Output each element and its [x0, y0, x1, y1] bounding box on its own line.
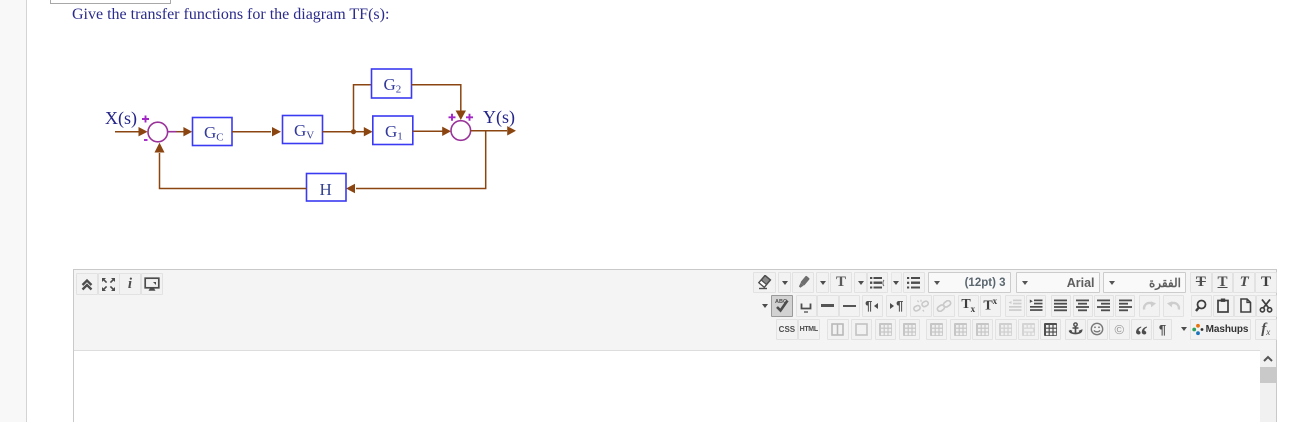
summing junction S1: [148, 122, 168, 142]
wire input to S1: [115, 131, 139, 133]
wire Gc to Gv: [232, 131, 271, 133]
wire G2 to S2 down: [412, 85, 461, 111]
wire G1 to S2: [413, 130, 443, 132]
wire S1 to Gc (purple stub): [168, 131, 177, 133]
partial input box at very top: [50, 0, 171, 4]
wire feedback down from output: [356, 131, 486, 189]
wire branch up to G2: [354, 85, 372, 132]
content scrollbar: [1260, 350, 1276, 422]
block Gc: [193, 118, 233, 146]
size combo: [928, 272, 1011, 293]
paragraph combo: [1103, 272, 1186, 293]
TOOLBAR row 2: [759, 295, 771, 316]
arrowhead into S2: [442, 127, 451, 136]
arrowhead into H right side: [346, 184, 355, 193]
svg-text:X(s): X(s): [105, 108, 137, 129]
minus sign at summing junction S1: [144, 139, 148, 141]
summing junction S2: [451, 121, 471, 141]
block G2: [372, 69, 412, 98]
wire S2 output: [471, 130, 507, 132]
plus sign right of S2: [466, 114, 473, 121]
TOOLBAR row 1 right: [753, 272, 776, 293]
block diagram: [100, 60, 530, 210]
question text: [72, 6, 389, 24]
TOOLBAR row 3: [776, 319, 798, 340]
svg-text:Y(s): Y(s): [483, 107, 515, 128]
editor container: [73, 269, 1277, 422]
arrowhead into Gc: [183, 127, 192, 136]
arrowhead down into S2: [456, 111, 466, 121]
arrowhead into Gv: [272, 127, 281, 136]
wire Gv to branch node: [323, 131, 354, 133]
wire to Gc: [177, 131, 185, 133]
block H: [307, 174, 347, 202]
block G1: [373, 116, 413, 145]
branch node junction dot: [351, 129, 356, 134]
block Gv: [283, 116, 323, 144]
arrowhead into G1: [364, 127, 373, 136]
wire H to left riser: [160, 153, 307, 189]
font combo: [1016, 272, 1100, 293]
wire node to G1: [354, 131, 365, 133]
plus sign at summing junction S1: [142, 116, 149, 123]
arrowhead into S1: [139, 127, 148, 136]
arrowhead output: [507, 126, 516, 135]
left sidebar strip: [0, 0, 27, 422]
svg-text:H: H: [320, 180, 332, 199]
TOOLBAR row 1 left group: [76, 273, 98, 295]
arrowhead up into S1: [155, 143, 165, 153]
plus sign left of S2: [449, 114, 456, 121]
